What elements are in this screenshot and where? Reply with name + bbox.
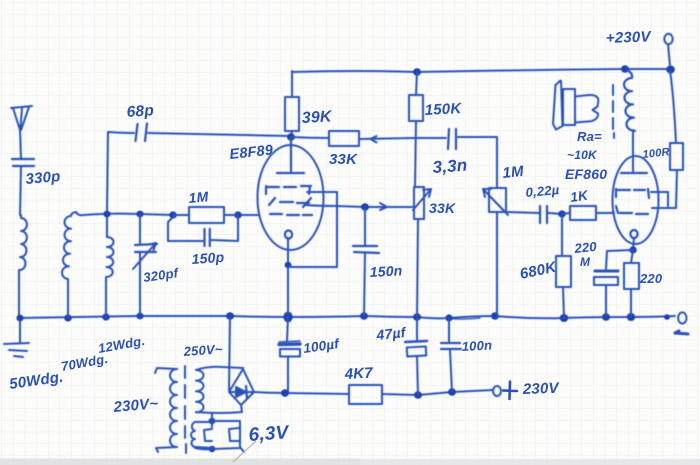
junction bus-cathode1 (283, 312, 292, 323)
antenna (11, 106, 32, 158)
transformer core dashes bottom (185, 366, 186, 453)
junction bus-terminal (664, 314, 670, 320)
transformer core dashes (613, 85, 614, 138)
svg-text:230V: 230V (522, 380, 561, 398)
inductor L2 (70Wdg) (62, 212, 76, 318)
capacitor 68p (107, 124, 291, 214)
capacitor 100n (441, 318, 461, 392)
svg-text:1M: 1M (502, 163, 525, 182)
svg-text:+230V: +230V (606, 28, 653, 47)
capacitor 47uf (405, 317, 427, 395)
cathode E8F89 (285, 231, 292, 318)
grid g2 E8F89 (269, 198, 311, 207)
junction bus-100n (445, 314, 452, 321)
svg-text:150n: 150n (369, 262, 403, 280)
potentiometer 33K (413, 187, 431, 317)
junction bus-680K (560, 314, 568, 322)
wire g3 to cathode strap (288, 192, 337, 267)
junction bus-320pf (136, 313, 143, 320)
junction topbus-150K (413, 68, 421, 76)
svg-text:M: M (580, 255, 591, 269)
grid g3 EF860 (616, 189, 649, 198)
svg-text:1K: 1K (569, 188, 590, 205)
resistor 100R (652, 70, 683, 208)
wire top bus (292, 69, 668, 72)
svg-text:220: 220 (639, 271, 663, 286)
wire bottom bus (20, 316, 675, 318)
resistor 220 cathode (624, 250, 639, 317)
anode EF860 (621, 172, 647, 174)
anode E8F89 (277, 137, 304, 173)
inductor L1 (50Wdg antenna coil) (19, 215, 27, 318)
junction outline-100n (448, 388, 456, 396)
svg-text:EF860: EF860 (565, 166, 607, 182)
transformer secondary 250V (196, 367, 243, 413)
capacitor 3,3n (415, 129, 497, 188)
svg-text:150K: 150K (424, 100, 462, 119)
svg-text:47µf: 47µf (375, 324, 408, 343)
junction bus-47uf (413, 313, 421, 321)
terminal ground right (678, 312, 686, 323)
resistor 150K (409, 72, 423, 187)
wire output to terminal (418, 390, 493, 395)
junction grid-320pf (136, 211, 143, 218)
terminal o+230V (493, 386, 501, 396)
pencil line (233, 441, 256, 462)
svg-text:33K: 33K (329, 151, 358, 168)
svg-text:~10K: ~10K (567, 148, 598, 162)
wire g2 out (305, 205, 415, 207)
resistor 33K anode (291, 131, 415, 146)
wire rectifier output (254, 392, 349, 394)
capacitor 330p (12, 159, 34, 215)
svg-text:250V~: 250V~ (182, 341, 223, 359)
svg-text:33K: 33K (429, 200, 456, 216)
svg-text:68p: 68p (126, 102, 154, 121)
svg-text:0,22µ: 0,22µ (525, 182, 560, 200)
svg-text:150p: 150p (191, 249, 225, 267)
capacitor 150n (353, 207, 379, 316)
grid g2/g1 EF860 (616, 206, 648, 214)
node cathode k junction (285, 262, 292, 268)
wire bus double stroke (448, 318, 480, 319)
junction grid-1M-left (169, 211, 177, 218)
wire secondary to rectifier (242, 368, 244, 370)
junction bus-220 (627, 313, 635, 321)
svg-text:4K7: 4K7 (343, 365, 373, 384)
junction bus-L1 (16, 315, 23, 322)
potentiometer 1M (483, 188, 508, 316)
capacitor 0,22u (505, 206, 562, 223)
grid g3 E8F89 (266, 186, 311, 194)
bottom scan shadow band (0, 459, 700, 465)
junction grid-1M-right (234, 211, 242, 218)
junction grid-68p (103, 211, 110, 218)
arrow on g2 wire (380, 203, 387, 210)
grid g1 E8F89 (270, 214, 312, 215)
label +230V bottom (503, 382, 517, 400)
wire OT to anode (632, 130, 634, 171)
wire grid line left (76, 212, 258, 215)
terminal +230V top (664, 34, 672, 66)
resistor 680K (556, 214, 571, 318)
junction bus-150n (360, 312, 368, 320)
node anode junction (287, 133, 295, 141)
speaker (553, 81, 598, 130)
cathode EF860 (630, 230, 637, 250)
svg-text:220: 220 (573, 239, 598, 256)
junction topbus-OT (621, 65, 629, 73)
svg-text:330p: 330p (25, 168, 61, 188)
svg-text:Ra=: Ra= (577, 129, 602, 144)
junction outline-47uf (414, 391, 422, 399)
capacitor 100uf (279, 317, 300, 393)
output transformer primary (624, 70, 635, 131)
transformer primary 230V (155, 368, 177, 452)
resistor 39K (285, 71, 299, 137)
svg-text:39K: 39K (301, 108, 333, 127)
capacitor 150p (168, 215, 238, 246)
wire g2 to 100R rectangle (651, 192, 668, 206)
junction bus-220u (602, 313, 610, 321)
inductor L3 (12Wdg) (106, 214, 114, 317)
tube E8F89 envelope (258, 145, 324, 250)
junction bus-L2 (64, 314, 72, 321)
rectifier feed wire (229, 316, 230, 390)
junction bus-L3 (102, 313, 110, 320)
junction bus-1Mpot (491, 312, 499, 320)
svg-text:1M: 1M (188, 188, 209, 206)
resistor R 1M grid (173, 207, 238, 223)
capacitor 220u cathode (594, 250, 632, 317)
node 6,3V junction (209, 418, 216, 424)
ground (4, 318, 29, 357)
junction bus-rectifier (226, 312, 234, 320)
junction topbus-230V (666, 66, 675, 74)
rectifier diamond (229, 369, 254, 412)
variable capacitor 320pf (133, 214, 157, 316)
resistor 1K (562, 206, 614, 220)
svg-text:3,3n: 3,3n (432, 156, 468, 177)
wire heater bottom (195, 447, 244, 452)
resistor 4K7 (349, 385, 418, 404)
heater winding 6,3V (191, 413, 240, 449)
svg-text:100n: 100n (461, 337, 492, 354)
tube EF860 envelope (613, 156, 659, 244)
